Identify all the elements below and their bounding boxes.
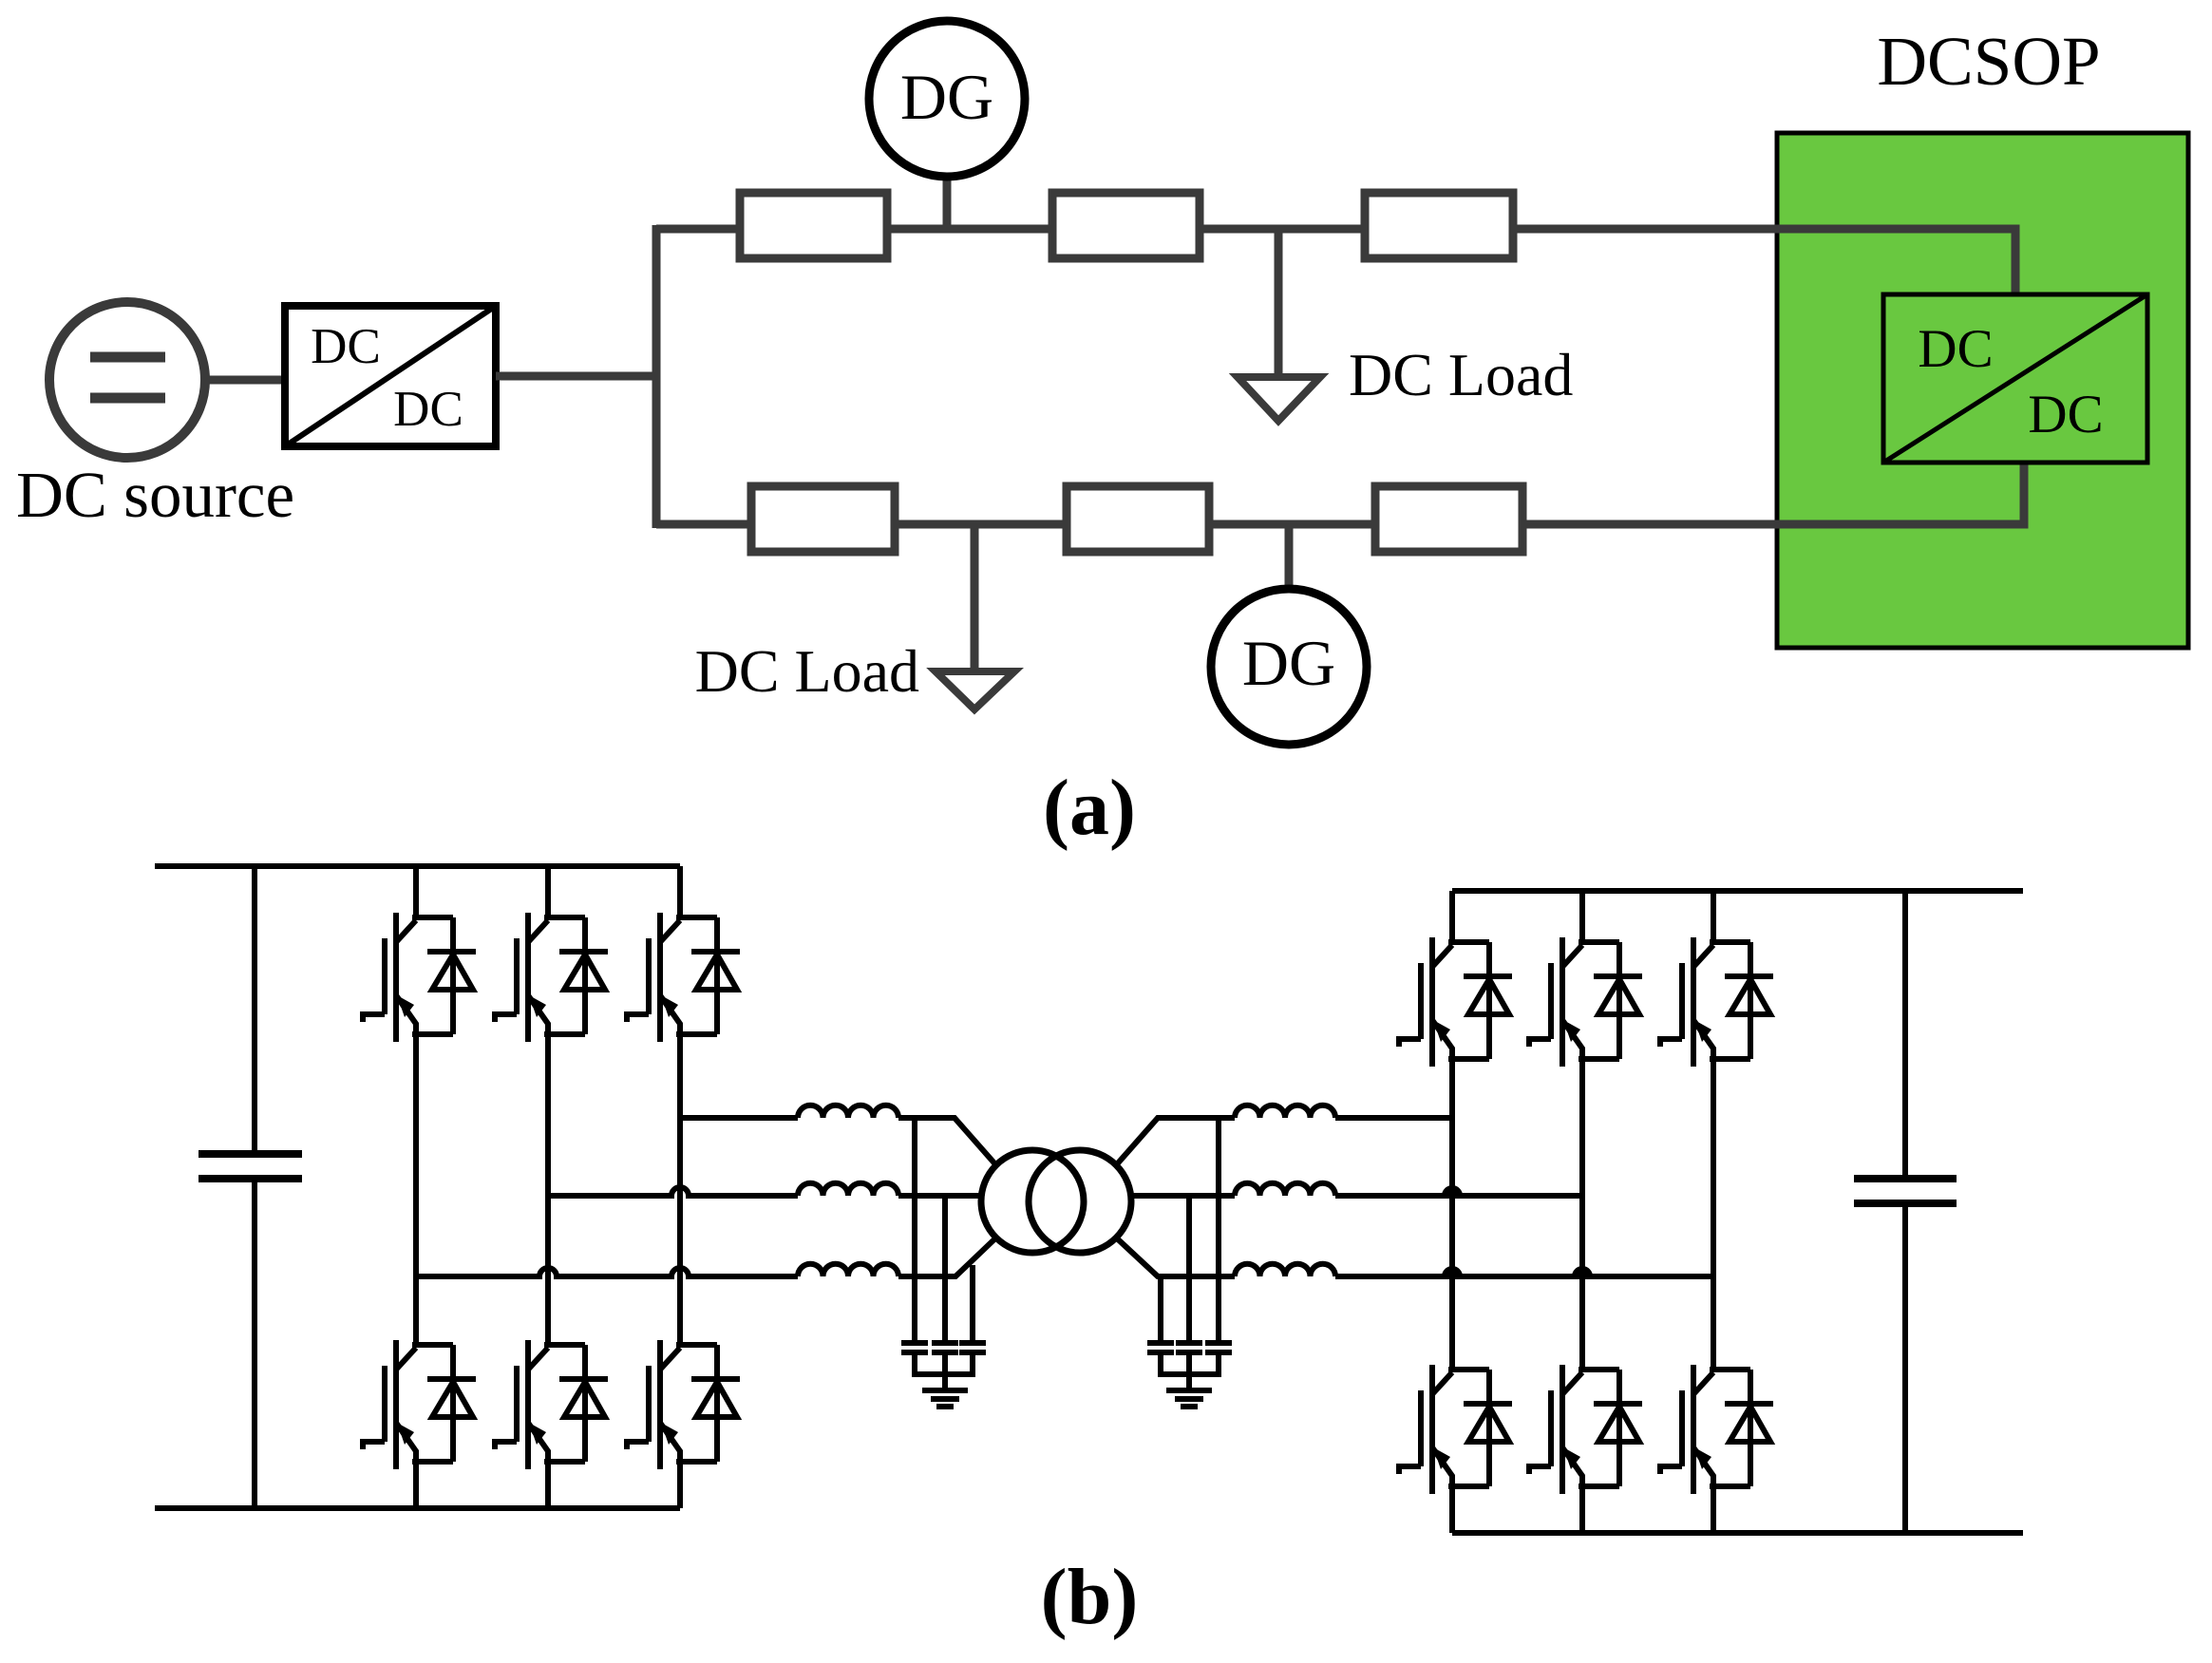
right leg C2 mid link (1711, 1059, 1716, 1370)
left filter shunt wire a (912, 1118, 917, 1340)
right DC top bus (1452, 888, 2023, 894)
left filter shunt wire b (942, 1196, 948, 1340)
wire bottom feeder segment 1 (656, 520, 751, 529)
DC load 1 drop wire (1275, 229, 1283, 375)
SOP inner box diagonal (1883, 294, 2147, 463)
left filter shunt wire c (970, 1265, 975, 1340)
right DC bottom bus (1452, 1530, 2023, 1536)
DC load 2 drop wire (971, 524, 979, 670)
wire source to converter (205, 376, 285, 385)
inductor Lb2 (1235, 1183, 1335, 1196)
phase B' line right of transformer (1131, 1193, 1582, 1199)
DC/DC converter diagonal (285, 306, 496, 446)
filter capacitor Ca2 (1205, 1343, 1232, 1352)
filter capacitor Cb1 (932, 1343, 958, 1352)
right leg B2 emitter stub (1579, 1486, 1585, 1533)
right leg C2 collector stub (1711, 891, 1716, 942)
left leg C1 mid link (677, 1034, 683, 1345)
IGBT Q7 (1399, 937, 1512, 1067)
svg-text:DC: DC (2028, 385, 2103, 444)
DC source symbol bar bottom (90, 393, 165, 404)
right filter shunt wire c (1158, 1276, 1163, 1340)
svg-text:DC source: DC source (16, 459, 294, 531)
left filter cap joining bus (915, 1352, 973, 1374)
DG2 drop wire (1285, 524, 1294, 590)
filter capacitor Cc1 (959, 1343, 986, 1352)
wire R3 into DCSOP top (1513, 229, 2015, 294)
wire R1 to R2 with DG tap (887, 225, 1052, 234)
IGBT Q11 (1529, 1365, 1642, 1494)
inductor La2 (1235, 1106, 1335, 1118)
svg-text:DC Load: DC Load (1349, 341, 1573, 408)
left DC bottom bus (155, 1505, 680, 1511)
inductor Lc2 (1235, 1264, 1335, 1276)
phase C' crossing bump over leg B2 (1575, 1269, 1590, 1276)
svg-text:DC: DC (311, 319, 381, 374)
IGBT Q2 (495, 913, 608, 1042)
IGBT Q10 (1399, 1365, 1512, 1494)
ground left (922, 1390, 968, 1407)
capacitor C1 bottom lead (252, 1179, 257, 1508)
right leg A2 collector stub (1449, 891, 1455, 942)
DC load 1 arrow (1238, 377, 1320, 421)
right leg A2 mid link (1449, 1059, 1455, 1370)
DC source circle (49, 302, 205, 458)
transformer T1 secondary (1029, 1150, 1131, 1253)
svg-text:DC: DC (1918, 319, 1993, 379)
right leg C2 emitter stub (1711, 1486, 1716, 1533)
filter capacitor Cc2 (1147, 1343, 1174, 1352)
inductor Lb1 (798, 1183, 898, 1196)
IGBT Q12 (1660, 1365, 1773, 1494)
resistor R3 (1365, 193, 1513, 258)
left leg B1 mid link (545, 1034, 551, 1345)
svg-text:DG: DG (900, 61, 993, 133)
DG1 drop wire (943, 177, 952, 229)
left leg B1 emitter stub (545, 1462, 551, 1508)
ground right (1166, 1390, 1212, 1407)
left leg C1 collector stub (677, 866, 683, 917)
wire R6 into DCSOP bottom (1522, 463, 2024, 524)
resistor R2 (1052, 193, 1200, 258)
IGBT Q1 (363, 913, 476, 1042)
left leg B1 collector stub (545, 866, 551, 917)
wire R2 to R3 (1200, 225, 1365, 234)
bus split vertical (652, 225, 661, 528)
phase A line left (680, 1118, 996, 1165)
IGBT Q4 (363, 1340, 476, 1469)
capacitor C1 top lead (252, 866, 257, 1154)
IGBT Q8 (1529, 937, 1642, 1067)
wire R4 to R5 (895, 520, 1067, 529)
DC load 2 arrow (936, 671, 1014, 709)
svg-text:DC: DC (393, 382, 463, 437)
capacitor C1 plates (199, 1154, 302, 1179)
right filter shunt wire a (1216, 1118, 1221, 1340)
filter capacitor Ca1 (901, 1343, 928, 1352)
left leg C1 emitter stub (677, 1462, 683, 1508)
capacitor C2 top lead (1902, 891, 1908, 1179)
DC source symbol bar top (90, 352, 165, 363)
right filter shunt wire b (1186, 1196, 1192, 1340)
svg-text:DCSOP: DCSOP (1877, 23, 2100, 100)
capacitor C2 plates (1854, 1179, 1957, 1203)
left leg A1 mid link (413, 1034, 419, 1345)
inductor Lc1 (798, 1264, 898, 1276)
left filter ground lead (942, 1352, 948, 1389)
right leg A2 emitter stub (1449, 1486, 1455, 1533)
wire R5 to R6 (1209, 520, 1375, 529)
IGBT Q6 (627, 1340, 740, 1469)
svg-text:DG: DG (1242, 627, 1335, 699)
filter capacitor Cb2 (1176, 1343, 1202, 1352)
transformer T1 primary (981, 1150, 1084, 1253)
left DC top bus (155, 863, 680, 869)
DC/DC converter box (285, 306, 496, 446)
phase B' crossing bump over leg A2 (1445, 1188, 1460, 1196)
phase C' diagonal+line right (1116, 1238, 1713, 1276)
inductor La1 (798, 1106, 898, 1118)
svg-text:(a): (a) (1043, 764, 1136, 852)
left leg A1 collector stub (413, 866, 419, 917)
resistor R4 (751, 486, 895, 552)
DG2 circle (1211, 589, 1367, 745)
svg-text:(b): (b) (1041, 1553, 1139, 1641)
DCSOP green box (1777, 133, 2188, 648)
phase A' diagonal+line right of transformer (1116, 1118, 1452, 1165)
right filter cap joining bus (1161, 1352, 1219, 1374)
right filter ground lead (1186, 1352, 1192, 1389)
IGBT Q5 (495, 1340, 608, 1469)
capacitor C2 bottom lead (1902, 1203, 1908, 1533)
svg-text:DC Load: DC Load (695, 637, 919, 705)
resistor R6 (1375, 486, 1522, 552)
SOP inner DC/DC box (1883, 294, 2147, 463)
left leg A1 emitter stub (413, 1462, 419, 1508)
DG1 circle (869, 21, 1025, 177)
IGBT Q9 (1660, 937, 1773, 1067)
phase C line left (hops over legs x=577,716) (416, 1238, 996, 1276)
right leg B2 collector stub (1579, 891, 1585, 942)
IGBT Q3 (627, 913, 740, 1042)
right leg B2 mid link (1579, 1059, 1585, 1370)
phase C' crossing bump over leg A2 (1445, 1269, 1460, 1276)
resistor R1 (740, 193, 887, 258)
wire converter to bus split (496, 372, 656, 381)
resistor R5 (1067, 486, 1209, 552)
wire top feeder segment 1 (656, 225, 740, 234)
phase B line left (hop over leg x=716) (548, 1187, 981, 1196)
